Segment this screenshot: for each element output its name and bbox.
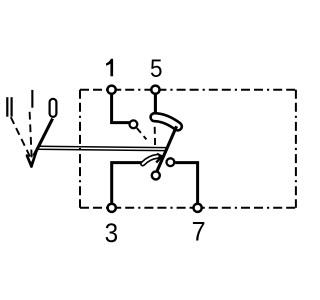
contact circle from terminal 1	[130, 120, 138, 128]
label 1	[106, 59, 113, 76]
svg-text:7: 7	[192, 218, 206, 247]
terminal 1	[108, 86, 116, 94]
dashed bridge position I	[154, 127, 156, 145]
box right edge	[295, 90, 297, 208]
lever position 0 (solid)	[34, 119, 53, 156]
svg-text:5: 5	[150, 55, 163, 83]
box left edge	[79, 90, 81, 208]
contact circle on wire 7	[167, 158, 175, 166]
terminal 3	[108, 204, 116, 212]
lever position II (dashed)	[11, 117, 30, 156]
svg-text:3: 3	[105, 219, 119, 248]
wire terminal 7	[175, 163, 197, 204]
moving contact bridge (capsule)	[155, 117, 178, 126]
wire terminal 1 to contact	[112, 94, 130, 122]
pivot circle	[152, 171, 160, 179]
terminal 5	[151, 86, 159, 94]
terminal 7	[194, 204, 202, 212]
actuator rod (double line)	[38, 146, 167, 147]
wire terminal 5 stub	[154, 94, 157, 114]
lever arrowhead	[27, 156, 31, 167]
label II	[6, 97, 8, 117]
label I	[31, 90, 33, 108]
label 0	[50, 99, 57, 117]
momentary arrow	[143, 156, 158, 164]
wire terminal 3	[112, 163, 144, 204]
dashed branch to contact 1 (position II of bridge)	[137, 128, 147, 139]
lever position I (dashed)	[30, 112, 32, 159]
bridge lever	[157, 126, 176, 171]
box bottom edge	[80, 207, 296, 209]
switch enclosure dashed box	[80, 89, 296, 91]
